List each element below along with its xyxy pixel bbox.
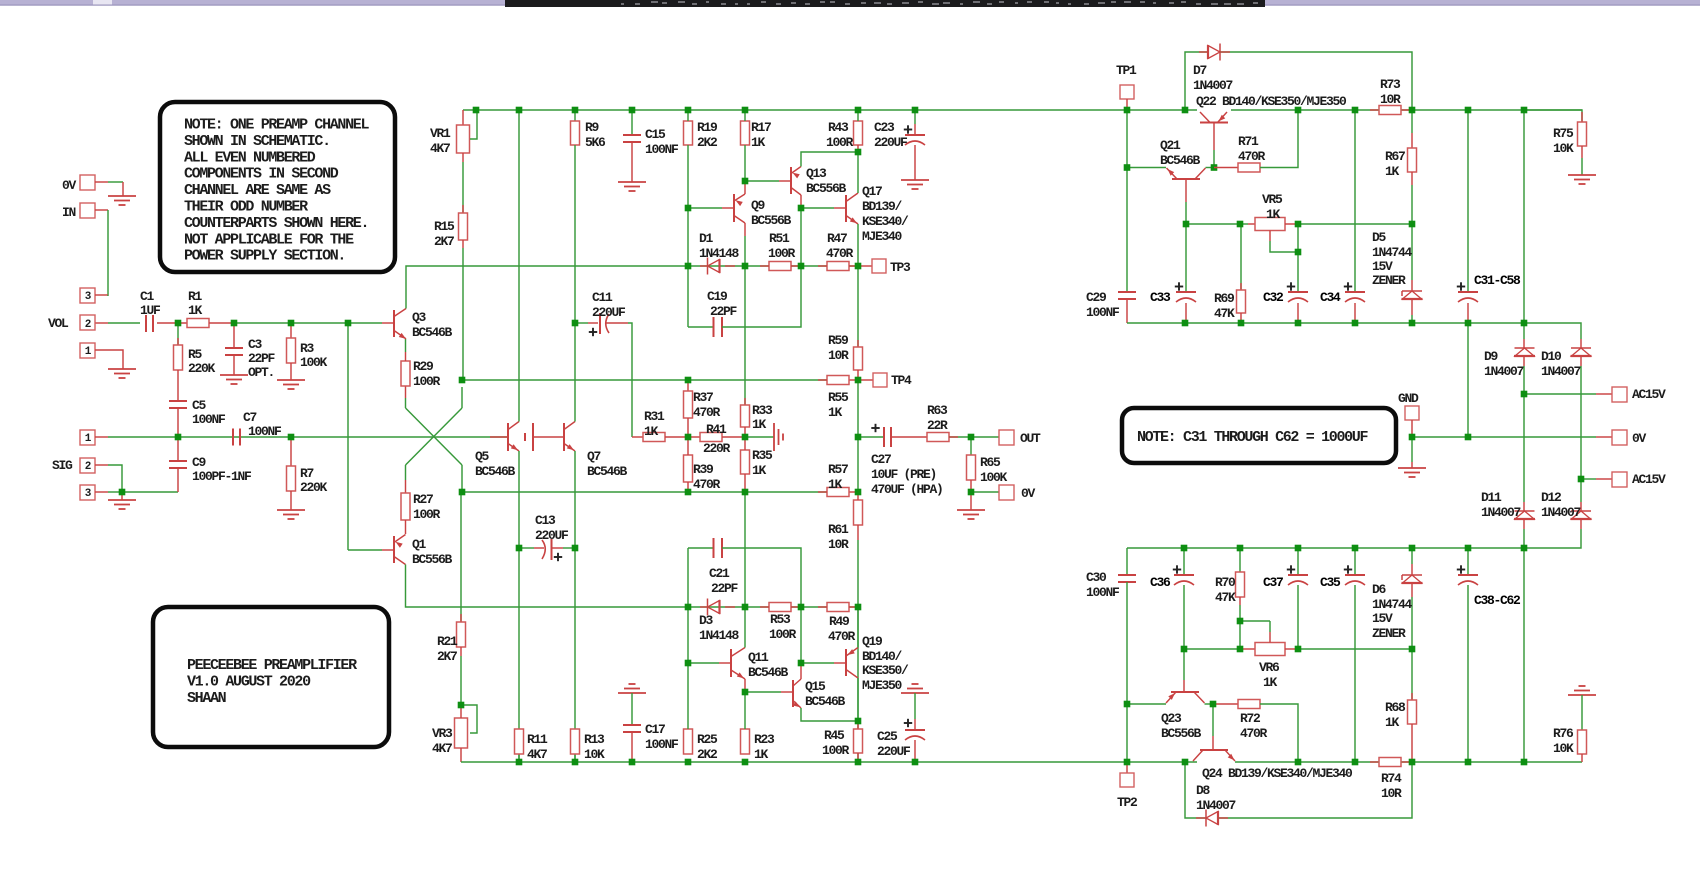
svg-text:4K7: 4K7 [527, 747, 547, 762]
svg-text:TP3: TP3 [890, 260, 911, 275]
svg-text:R23: R23 [754, 732, 775, 747]
svg-text:2K2: 2K2 [697, 135, 718, 150]
svg-text:BC556B: BC556B [806, 181, 847, 196]
svg-text:D1: D1 [699, 231, 714, 246]
svg-text:BC556B: BC556B [412, 552, 453, 567]
svg-text:1N4744: 1N4744 [1372, 245, 1413, 260]
svg-text:1K: 1K [752, 417, 767, 432]
svg-text:10R: 10R [1381, 786, 1402, 801]
svg-text:R55: R55 [828, 390, 849, 405]
svg-text:COMPONENTS IN SECOND: COMPONENTS IN SECOND [184, 166, 339, 183]
svg-text:100K: 100K [980, 470, 1008, 485]
svg-text:Q13: Q13 [806, 166, 827, 181]
svg-text:ZENER: ZENER [1372, 626, 1406, 641]
svg-text:R11: R11 [527, 732, 548, 747]
svg-text:C29: C29 [1086, 290, 1107, 305]
svg-text:100NF: 100NF [1086, 305, 1120, 320]
svg-text:220UF: 220UF [874, 135, 908, 150]
svg-text:470R: 470R [828, 629, 856, 644]
svg-text:V1.0 AUGUST 2020: V1.0 AUGUST 2020 [187, 674, 311, 691]
svg-text:1K: 1K [644, 424, 659, 439]
svg-text:C7: C7 [243, 410, 257, 425]
svg-text:D10: D10 [1541, 349, 1562, 364]
svg-text:100R: 100R [413, 507, 441, 522]
svg-text:R33: R33 [752, 403, 773, 418]
svg-text:C36: C36 [1150, 575, 1171, 590]
svg-text:220R: 220R [703, 441, 731, 456]
svg-text:C23: C23 [874, 120, 895, 135]
svg-text:R39: R39 [693, 462, 714, 477]
svg-text:Q9: Q9 [751, 198, 766, 213]
svg-text:NOTE: ONE PREAMP CHANNEL: NOTE: ONE PREAMP CHANNEL [184, 117, 369, 134]
svg-text:1K: 1K [1266, 207, 1281, 222]
svg-text:KSE350/: KSE350/ [862, 663, 909, 678]
svg-text:Q19: Q19 [862, 634, 883, 649]
svg-text:VR1: VR1 [430, 126, 451, 141]
svg-text:22PF: 22PF [711, 581, 739, 596]
svg-text:C9: C9 [192, 455, 207, 470]
svg-text:1K: 1K [752, 463, 767, 478]
svg-text:2: 2 [85, 461, 91, 473]
svg-text:BC556B: BC556B [751, 213, 792, 228]
svg-text:OPT.: OPT. [248, 365, 274, 380]
svg-text:C25: C25 [877, 729, 898, 744]
svg-text:MJE340: MJE340 [862, 229, 903, 244]
svg-text:100R: 100R [826, 135, 854, 150]
svg-text:100NF: 100NF [645, 737, 679, 752]
svg-text:22R: 22R [927, 418, 948, 433]
svg-text:TP2: TP2 [1117, 795, 1138, 810]
svg-text:VR3: VR3 [432, 726, 453, 741]
svg-text:1K: 1K [1263, 675, 1278, 690]
svg-text:1K: 1K [751, 135, 766, 150]
svg-text:R76: R76 [1553, 726, 1574, 741]
svg-text:100R: 100R [769, 627, 797, 642]
svg-text:R43: R43 [828, 120, 849, 135]
svg-text:D9: D9 [1484, 349, 1499, 364]
svg-text:C27: C27 [871, 452, 891, 467]
svg-text:C19: C19 [707, 289, 728, 304]
svg-text:D3: D3 [699, 613, 714, 628]
svg-text:220UF: 220UF [877, 744, 911, 759]
svg-text:100R: 100R [413, 374, 441, 389]
svg-text:THEIR ODD NUMBER: THEIR ODD NUMBER [184, 199, 308, 216]
svg-text:C34: C34 [1320, 290, 1341, 305]
svg-text:R5: R5 [188, 347, 203, 362]
svg-text:C15: C15 [645, 127, 666, 142]
svg-text:1N4148: 1N4148 [699, 246, 740, 261]
svg-text:VR5: VR5 [1262, 192, 1283, 207]
svg-text:1N4007: 1N4007 [1484, 364, 1524, 379]
svg-text:D8: D8 [1196, 783, 1211, 798]
svg-text:470R: 470R [693, 405, 721, 420]
svg-text:1N4007: 1N4007 [1541, 364, 1581, 379]
svg-text:1K: 1K [1385, 164, 1400, 179]
svg-text:BC546B: BC546B [805, 694, 846, 709]
svg-text:10K: 10K [1553, 141, 1574, 156]
svg-text:AC15V: AC15V [1632, 472, 1666, 487]
svg-text:D11: D11 [1481, 490, 1502, 505]
svg-text:D7: D7 [1193, 63, 1207, 78]
svg-text:R71: R71 [1238, 134, 1259, 149]
svg-text:AC15V: AC15V [1632, 387, 1666, 402]
svg-text:1K: 1K [754, 747, 769, 762]
svg-text:1K: 1K [828, 477, 843, 492]
svg-text:R15: R15 [434, 219, 455, 234]
svg-text:VR6: VR6 [1259, 660, 1280, 675]
svg-text:R67: R67 [1385, 149, 1405, 164]
svg-text:1N4148: 1N4148 [699, 628, 740, 643]
svg-text:BC546B: BC546B [412, 325, 453, 340]
svg-text:BD140/: BD140/ [862, 649, 903, 664]
svg-text:R49: R49 [829, 614, 850, 629]
svg-text:R37: R37 [693, 390, 713, 405]
svg-text:470UF (HPA): 470UF (HPA) [871, 482, 943, 497]
svg-text:100K: 100K [300, 355, 328, 370]
svg-text:BC546B: BC546B [475, 464, 516, 479]
svg-text:C30: C30 [1086, 570, 1107, 585]
svg-text:BD139/: BD139/ [862, 199, 903, 214]
svg-text:R19: R19 [697, 120, 718, 135]
svg-text:470R: 470R [826, 246, 854, 261]
svg-text:220UF: 220UF [592, 305, 626, 320]
svg-text:22PF: 22PF [248, 351, 276, 366]
svg-text:47K: 47K [1215, 590, 1236, 605]
svg-text:C32: C32 [1263, 290, 1284, 305]
svg-text:R21: R21 [437, 634, 458, 649]
svg-text:D12: D12 [1541, 490, 1562, 505]
svg-text:VOL: VOL [48, 316, 69, 331]
svg-text:10R: 10R [1380, 92, 1401, 107]
svg-text:R68: R68 [1385, 700, 1406, 715]
svg-text:1K: 1K [828, 405, 843, 420]
svg-text:100NF: 100NF [248, 424, 282, 439]
svg-text:SHAAN: SHAAN [187, 690, 227, 707]
svg-text:47K: 47K [1214, 306, 1235, 321]
svg-text:0V: 0V [62, 178, 77, 193]
svg-text:1N4007: 1N4007 [1193, 78, 1233, 93]
svg-text:4K7: 4K7 [432, 741, 452, 756]
svg-text:R17: R17 [751, 120, 771, 135]
svg-text:MJE350: MJE350 [862, 678, 903, 693]
svg-text:0V: 0V [1632, 431, 1647, 446]
svg-text:C17: C17 [645, 722, 665, 737]
svg-text:5K6: 5K6 [585, 135, 606, 150]
svg-text:SIG: SIG [52, 458, 73, 473]
svg-text:BC546B: BC546B [587, 464, 628, 479]
svg-text:C21: C21 [709, 566, 730, 581]
svg-text:GND: GND [1398, 391, 1419, 406]
svg-text:Q1: Q1 [412, 537, 427, 552]
svg-text:R9: R9 [585, 120, 600, 135]
svg-text:22PF: 22PF [710, 304, 738, 319]
svg-text:4K7: 4K7 [430, 141, 450, 156]
svg-text:Q21: Q21 [1160, 138, 1181, 153]
svg-text:1N4007: 1N4007 [1541, 505, 1581, 520]
svg-text:470R: 470R [1238, 149, 1266, 164]
svg-text:1K: 1K [188, 303, 203, 318]
svg-text:R13: R13 [584, 732, 605, 747]
svg-text:R72: R72 [1240, 711, 1261, 726]
svg-text:Q15: Q15 [805, 679, 826, 694]
svg-text:1K: 1K [1385, 715, 1400, 730]
svg-text:100R: 100R [822, 743, 850, 758]
svg-text:R7: R7 [300, 466, 314, 481]
svg-text:R51: R51 [769, 231, 790, 246]
svg-text:470R: 470R [1240, 726, 1268, 741]
svg-text:BC546B: BC546B [748, 665, 789, 680]
svg-text:C1: C1 [140, 289, 155, 304]
svg-text:TP4: TP4 [891, 373, 912, 388]
svg-text:R29: R29 [413, 359, 434, 374]
svg-text:R59: R59 [828, 333, 849, 348]
svg-text:R57: R57 [828, 462, 848, 477]
svg-text:R69: R69 [1214, 291, 1235, 306]
svg-text:1N4007: 1N4007 [1481, 505, 1521, 520]
svg-text:R74: R74 [1381, 771, 1402, 786]
svg-text:2K7: 2K7 [437, 649, 457, 664]
svg-text:NOTE: C31 THROUGH C62 = 1000UF: NOTE: C31 THROUGH C62 = 1000UF [1137, 429, 1368, 446]
svg-text:Q17: Q17 [862, 184, 882, 199]
svg-text:SHOWN IN SCHEMATIC.: SHOWN IN SCHEMATIC. [184, 133, 330, 150]
svg-text:15V: 15V [1372, 611, 1393, 626]
svg-text:Q11: Q11 [748, 650, 769, 665]
svg-text:R63: R63 [927, 403, 948, 418]
svg-text:470R: 470R [693, 477, 721, 492]
svg-text:NOT APPLICABLE FOR THE: NOT APPLICABLE FOR THE [184, 231, 354, 248]
svg-text:R3: R3 [300, 341, 315, 356]
svg-text:OUT: OUT [1020, 431, 1041, 446]
svg-text:100R: 100R [768, 246, 796, 261]
svg-text:Q22 BD140/KSE350/MJE350: Q22 BD140/KSE350/MJE350 [1196, 94, 1347, 109]
svg-text:R1: R1 [188, 289, 203, 304]
svg-text:100NF: 100NF [645, 142, 679, 157]
svg-text:2K2: 2K2 [697, 747, 718, 762]
svg-text:1N4007: 1N4007 [1196, 798, 1236, 813]
svg-text:KSE340/: KSE340/ [862, 214, 909, 229]
svg-text:100NF: 100NF [1086, 585, 1120, 600]
svg-text:R41: R41 [706, 422, 727, 437]
svg-text:220UF: 220UF [535, 528, 569, 543]
svg-text:TP1: TP1 [1116, 63, 1137, 78]
svg-text:0V: 0V [1021, 486, 1036, 501]
svg-text:100NF: 100NF [192, 412, 226, 427]
svg-text:D5: D5 [1372, 230, 1387, 245]
svg-text:R70: R70 [1215, 575, 1236, 590]
svg-text:100PF-1NF: 100PF-1NF [192, 469, 252, 484]
svg-text:2K7: 2K7 [434, 234, 454, 249]
svg-text:R47: R47 [827, 231, 847, 246]
svg-text:C35: C35 [1320, 575, 1341, 590]
svg-text:10K: 10K [1553, 741, 1574, 756]
svg-text:R53: R53 [770, 612, 791, 627]
svg-text:PEECEEBEE PREAMPLIFIER: PEECEEBEE PREAMPLIFIER [187, 657, 357, 674]
svg-text:R45: R45 [824, 728, 845, 743]
svg-text:10K: 10K [584, 747, 605, 762]
svg-text:15V: 15V [1372, 259, 1393, 274]
svg-text:POWER SUPPLY SECTION.: POWER SUPPLY SECTION. [184, 248, 345, 265]
svg-text:10UF (PRE): 10UF (PRE) [871, 467, 936, 482]
svg-text:10R: 10R [828, 348, 849, 363]
svg-text:ZENER: ZENER [1372, 273, 1406, 288]
svg-text:R27: R27 [413, 492, 433, 507]
svg-text:COUNTERPARTS SHOWN HERE.: COUNTERPARTS SHOWN HERE. [184, 215, 368, 232]
svg-text:Q5: Q5 [475, 449, 490, 464]
svg-text:Q24 BD139/KSE340/MJE340: Q24 BD139/KSE340/MJE340 [1202, 766, 1353, 781]
svg-text:C13: C13 [535, 513, 556, 528]
svg-text:R25: R25 [697, 732, 718, 747]
svg-text:1UF: 1UF [140, 303, 161, 318]
svg-text:R75: R75 [1553, 126, 1574, 141]
svg-text:10R: 10R [828, 537, 849, 552]
svg-text:Q3: Q3 [412, 310, 427, 325]
svg-text:R73: R73 [1380, 77, 1401, 92]
svg-text:C38-C62: C38-C62 [1474, 593, 1521, 608]
svg-text:IN: IN [62, 205, 76, 220]
svg-text:BC556B: BC556B [1161, 726, 1202, 741]
svg-text:C33: C33 [1150, 290, 1171, 305]
svg-text:C5: C5 [192, 398, 207, 413]
svg-text:220K: 220K [188, 361, 216, 376]
svg-text:R65: R65 [980, 455, 1001, 470]
svg-text:D6: D6 [1372, 582, 1387, 597]
svg-text:C3: C3 [248, 337, 263, 352]
svg-text:ALL EVEN NUMBERED: ALL EVEN NUMBERED [184, 149, 316, 166]
svg-text:C37: C37 [1263, 575, 1283, 590]
svg-text:C11: C11 [592, 290, 613, 305]
svg-text:R35: R35 [752, 448, 773, 463]
svg-text:R61: R61 [828, 522, 849, 537]
svg-text:C31-C58: C31-C58 [1474, 273, 1521, 288]
svg-text:CHANNEL ARE SAME AS: CHANNEL ARE SAME AS [184, 182, 331, 199]
svg-text:BC546B: BC546B [1160, 153, 1201, 168]
svg-text:Q23: Q23 [1161, 711, 1182, 726]
svg-text:2: 2 [85, 319, 91, 331]
svg-text:R31: R31 [644, 409, 665, 424]
svg-text:Q7: Q7 [587, 449, 601, 464]
svg-text:220K: 220K [300, 480, 328, 495]
svg-text:1N4744: 1N4744 [1372, 597, 1413, 612]
